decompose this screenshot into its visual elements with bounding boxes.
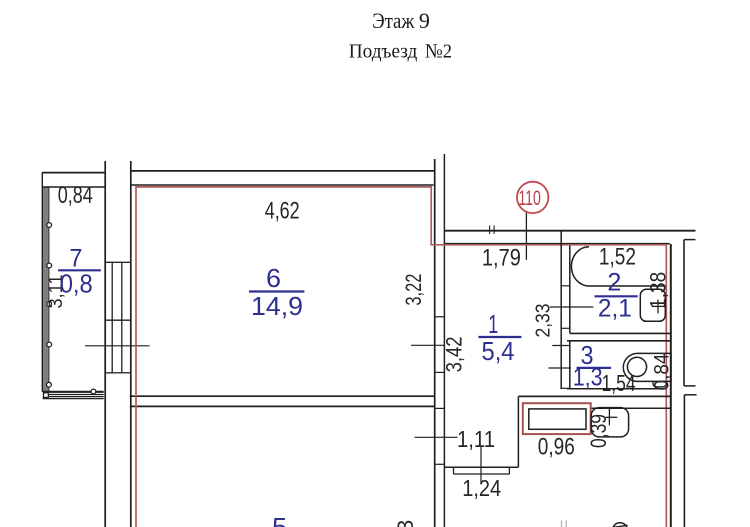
svg-text:1,79: 1,79	[482, 244, 521, 271]
room6 right dim line	[411, 344, 445, 346]
neighbor wall upper	[683, 240, 685, 386]
window dim line	[85, 345, 150, 347]
wall window-column left	[104, 161, 106, 527]
threshold	[454, 467, 510, 474]
corridor lower right wall	[517, 396, 519, 467]
toilet top wall	[567, 340, 671, 342]
corridor left wall line 2	[443, 154, 445, 527]
svg-text:0,8: 0,8	[60, 269, 93, 299]
svg-text:0,39: 0,39	[586, 414, 611, 448]
neighbor wall cap mid	[684, 385, 696, 387]
neighbor wall lower	[683, 395, 685, 527]
svg-text:3,22: 3,22	[401, 274, 426, 306]
dim double tick	[490, 226, 495, 235]
svg-text:110: 110	[518, 187, 541, 210]
svg-text:1,11: 1,11	[457, 426, 495, 452]
washbasin	[640, 289, 665, 321]
svg-text:9: 9	[419, 8, 430, 33]
wall room6/5 left	[130, 161, 132, 527]
door panel	[591, 408, 628, 437]
svg-text:2,33: 2,33	[533, 304, 555, 338]
line right of door / neighbor wall top	[591, 407, 671, 409]
neighbor wall cap top	[684, 239, 696, 241]
balcony left hatched wall	[42, 172, 49, 392]
railing corner square	[44, 393, 49, 398]
balcony window box	[105, 262, 131, 373]
svg-text:№2: №2	[425, 41, 452, 63]
apartment right wall	[670, 244, 672, 527]
svg-text:Подъезд: Подъезд	[349, 41, 418, 63]
svg-text:2: 2	[607, 269, 621, 297]
svg-text:1,54: 1,54	[602, 370, 636, 396]
balcony wall anchor circles	[47, 223, 52, 388]
bathtub	[571, 247, 665, 286]
svg-text:Этаж: Этаж	[372, 8, 415, 33]
corridor left wall ticks	[435, 317, 445, 465]
closet red box	[523, 403, 591, 434]
toilet outline	[623, 353, 671, 381]
door cross marks	[606, 408, 618, 426]
corridor top outer wall	[444, 230, 695, 232]
svg-text:1,52: 1,52	[599, 243, 636, 270]
washbasin faucet cross	[652, 300, 666, 314]
svg-text:5: 5	[272, 512, 287, 527]
balcony top outer wall line	[42, 172, 105, 174]
svg-text:1: 1	[488, 309, 498, 339]
bath/toilet left wall	[569, 246, 571, 389]
toilet tab	[653, 381, 666, 387]
dim line room3	[549, 367, 572, 369]
bathroom bottom wall	[570, 332, 671, 334]
right wall ticks	[552, 286, 570, 389]
neighbor wall cap lower	[684, 394, 696, 396]
corridor bottom line	[444, 466, 518, 468]
dim leader 1,24	[480, 447, 482, 482]
dim line 2,33	[550, 306, 594, 308]
svg-text:4,62: 4,62	[265, 198, 300, 225]
svg-text:0,96: 0,96	[538, 433, 575, 460]
wall below toilet	[518, 395, 671, 397]
corridor/bath top inner line	[444, 243, 669, 245]
apartment number leader	[525, 213, 527, 260]
bottom partial glyph circle	[612, 523, 627, 527]
closet inner box	[529, 409, 586, 429]
svg-text:5,4: 5,4	[482, 336, 515, 366]
toilet bottom wall	[567, 388, 666, 390]
svg-text:0,84: 0,84	[650, 353, 673, 390]
room6 bottom wall lines	[130, 395, 436, 397]
bottom partial marks	[562, 521, 567, 527]
svg-text:1,24: 1,24	[462, 475, 501, 501]
svg-text:3,42: 3,42	[442, 336, 467, 372]
svg-text:14,9: 14,9	[251, 291, 303, 321]
balcony bottom railing	[43, 392, 104, 399]
corridor left wall line 1	[434, 159, 436, 527]
room6 top outer wall line	[130, 170, 434, 172]
room 6 top inner line	[131, 184, 434, 186]
svg-text:2,1: 2,1	[598, 294, 632, 322]
svg-text:1,3: 1,3	[573, 364, 603, 392]
railing circle	[91, 389, 96, 394]
dim line 1,11	[415, 436, 458, 438]
svg-text:6: 6	[266, 263, 281, 293]
svg-text:1,38: 1,38	[645, 272, 670, 309]
corridor top wall drop	[560, 231, 562, 244]
red apartment boundary	[136, 187, 666, 527]
toilet bowl circle	[627, 357, 646, 376]
svg-text:0,84: 0,84	[58, 182, 93, 209]
balcony top inner line	[42, 186, 104, 188]
svg-text:3: 3	[393, 520, 418, 527]
apartment number circle 110	[517, 182, 548, 213]
corridor right wall line 1	[560, 244, 562, 389]
